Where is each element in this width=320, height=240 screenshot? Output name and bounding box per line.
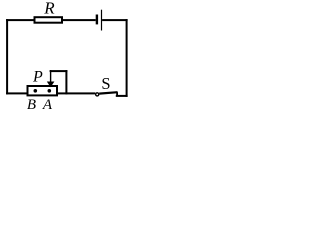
switch S pivot circle <box>96 93 99 96</box>
slider wire horizontal <box>50 70 68 72</box>
resistor R <box>35 17 63 23</box>
battery cell: positive plate (long thin) <box>101 10 102 31</box>
slider wire vertical down to node A side <box>65 70 67 94</box>
label B <box>27 97 36 113</box>
svg-text:A: A <box>42 97 53 110</box>
svg-text:P: P <box>32 68 43 85</box>
rheostat body (slide rheostat) <box>28 86 58 95</box>
switch S blade <box>99 92 117 93</box>
battery cell: negative plate (short thick) <box>96 15 98 25</box>
slider arrow of rheostat <box>47 70 55 87</box>
wire bottom left <box>6 92 95 94</box>
svg-text:R: R <box>43 0 55 18</box>
wire right <box>126 19 128 97</box>
wire top <box>6 19 96 21</box>
rheostat terminal dot B <box>34 89 38 93</box>
switch fixed contact stub <box>116 92 118 96</box>
wire bottom right <box>116 95 128 97</box>
svg-text:S: S <box>101 74 110 93</box>
wire left <box>6 19 8 94</box>
rheostat terminal dot A <box>48 89 52 93</box>
label R <box>43 0 55 18</box>
svg-text:B: B <box>27 97 36 110</box>
label P <box>32 68 43 85</box>
label S <box>101 74 110 93</box>
label A <box>42 97 53 113</box>
wire top right (battery to corner) <box>102 19 128 21</box>
